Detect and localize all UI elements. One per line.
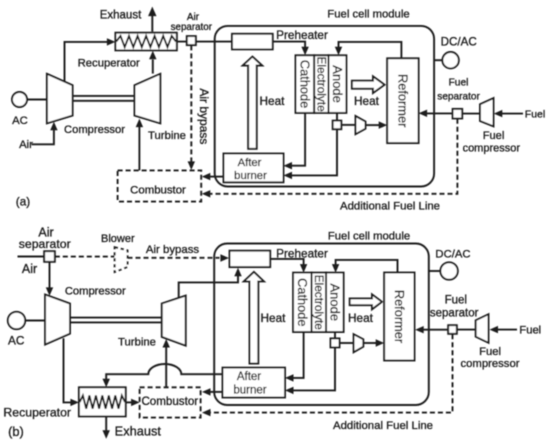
wire reformer to anode (a) (339, 42, 402, 58)
junction square anode outlet (a) (333, 121, 342, 130)
wire cathode to after burner (a) (292, 113, 306, 166)
svg-text:DC/AC: DC/AC (435, 249, 470, 261)
svg-text:Fuel: Fuel (519, 325, 541, 337)
svg-text:Electrolyte: Electrolyte (314, 57, 328, 113)
ejector nozzle (b) (354, 334, 364, 352)
svg-text:separator: separator (437, 92, 480, 103)
fuel cell module boundary (b) (214, 244, 429, 406)
svg-text:After: After (237, 371, 261, 383)
svg-text:separator: separator (430, 308, 479, 320)
wire fuel compressor to fuel separator (b) (457, 329, 476, 331)
svg-text:Compressor: Compressor (64, 124, 125, 136)
recuperator R1 (a) (115, 33, 176, 51)
wire air inlet (b) (18, 256, 45, 258)
cathode (b) (293, 273, 312, 332)
wire anode to junction square (a) (336, 113, 338, 121)
svg-text:Heat: Heat (348, 311, 374, 325)
svg-text:separator: separator (171, 22, 213, 33)
fuel compressor (a) (480, 98, 494, 126)
wire reformer to anode (b) (336, 260, 398, 273)
anode (b) (326, 273, 344, 332)
svg-text:Heat: Heat (260, 94, 286, 108)
wire ejector to reformer (a) (366, 124, 380, 126)
svg-text:Turbine: Turbine (148, 130, 186, 142)
shaft (b) (70, 317, 162, 319)
svg-text:Recuperator: Recuperator (3, 406, 71, 420)
svg-text:(a): (a) (16, 195, 30, 209)
air separator square (a) (187, 36, 196, 45)
DC/AC converter circle (b) (440, 262, 457, 279)
svg-text:Air bypass: Air bypass (197, 88, 211, 144)
svg-text:Recuperator: Recuperator (78, 57, 140, 69)
additional fuel dashed line (a) (210, 119, 457, 194)
wire recuperator to combustor (b) (126, 401, 132, 403)
compressor (b) (45, 295, 70, 345)
svg-text:burner: burner (233, 385, 266, 397)
wire combustor to turbine (a) (138, 127, 140, 171)
electrolyte (a) (314, 55, 328, 113)
wire compressor to recuperator (b) (64, 338, 71, 402)
wire junction to after burner (b) (293, 347, 335, 390)
cathode (a) (296, 55, 315, 113)
ejector nozzle (a) (356, 116, 366, 134)
svg-text:Anode: Anode (330, 65, 345, 103)
svg-text:AC: AC (8, 333, 25, 347)
wire air separator to compressor (b) (49, 262, 51, 289)
svg-text:Heat: Heat (261, 311, 287, 325)
svg-text:Reformer: Reformer (392, 290, 407, 344)
svg-text:Fuel: Fuel (479, 346, 501, 358)
after burner (a) (224, 154, 284, 183)
shaft (a) (73, 95, 135, 97)
wire air inlet (a) (32, 130, 54, 145)
svg-text:compressor: compressor (460, 358, 519, 370)
wire combustor to turbine (b) (165, 348, 167, 388)
additional fuel dashed line (b) (210, 334, 452, 412)
heat block arrow right (b) (350, 294, 382, 309)
DC/AC converter circle (a) (442, 52, 458, 68)
wire turbine to recuperator (a) (152, 60, 154, 74)
heat block arrow up (a) (243, 57, 263, 149)
blower (b) (115, 247, 128, 272)
svg-text:Fuel: Fuel (483, 130, 505, 142)
recuperator (b) (79, 387, 126, 416)
svg-text:Exhaust: Exhaust (115, 424, 162, 439)
wire preheater to cathode (b) (270, 259, 303, 266)
wire junction to after burner (a) (292, 129, 338, 175)
air bypass dashed line (b) (128, 257, 220, 259)
wire fuel separator to reformer (b) (424, 329, 449, 331)
wire after burner to combustor (a) (210, 176, 224, 178)
svg-text:Fuel: Fuel (449, 77, 469, 88)
wire module to DC/AC converter (a) (434, 59, 442, 61)
svg-text:Compressor: Compressor (65, 286, 126, 298)
fuel cell module boundary (a) (215, 26, 434, 187)
wire after burner to recuperator with hop (b) (106, 364, 222, 380)
wire ejector to reformer (b) (363, 342, 376, 344)
svg-text:DC/AC: DC/AC (441, 36, 477, 49)
svg-text:Turbine: Turbine (118, 336, 156, 348)
svg-text:Heat: Heat (354, 94, 380, 108)
reformer (a) (387, 58, 418, 143)
wire fuel separator to reformer (a) (427, 112, 453, 114)
wire compressor outlet to recuperator (a) (65, 42, 109, 82)
combustor dashed box (a) (118, 170, 202, 201)
wire fuel inlet (a) (502, 113, 524, 115)
combustor dashed box (b) (140, 387, 201, 417)
wire turbine to preheater (b) (179, 276, 238, 298)
wire cathode to after burner (b) (293, 332, 304, 378)
exhaust arrow (a) (151, 16, 153, 32)
svg-text:Exhaust: Exhaust (100, 10, 142, 22)
heat block arrow right (a) (352, 76, 385, 93)
wire after burner to combustor (b) (210, 391, 223, 393)
after burner (b) (223, 368, 286, 398)
junction square anode outlet (b) (331, 338, 340, 347)
preheater (a) (232, 34, 273, 50)
heat block arrow up (b) (244, 272, 264, 364)
AC generator circle (a) (12, 92, 27, 107)
svg-text:Anode: Anode (327, 284, 342, 322)
AC generator circle (b) (8, 312, 25, 329)
fuel separator square (b) (448, 325, 457, 334)
fuel compressor (b) (476, 314, 489, 343)
turbine (a) (135, 74, 161, 124)
wire AC to compressor (a) (27, 99, 47, 101)
wire fuel compressor to fuel separator (a) (462, 113, 480, 115)
preheater (b) (230, 251, 271, 267)
svg-text:Air: Air (19, 139, 33, 151)
svg-text:Cathode: Cathode (297, 60, 312, 108)
svg-text:Combustor: Combustor (130, 184, 186, 196)
recuperator zigzag (a) (116, 36, 176, 47)
svg-text:Combustor: Combustor (141, 395, 198, 408)
wire fuel inlet (b) (497, 329, 517, 331)
svg-text:burner: burner (234, 170, 267, 182)
electrolyte (b) (312, 273, 327, 332)
svg-text:(b): (b) (8, 424, 24, 439)
svg-text:Electrolyte: Electrolyte (312, 275, 326, 331)
recuperator zigzag (b) (80, 396, 125, 409)
svg-text:Additional Fuel Line: Additional Fuel Line (340, 201, 440, 213)
wire recuperator to air separator to preheater (a) (177, 41, 232, 43)
air separator square (b) (44, 251, 55, 262)
wire preheater to cathode (a) (273, 42, 305, 48)
svg-text:AC: AC (12, 115, 28, 127)
blower dashed line left (b) (55, 256, 115, 258)
svg-text:Additional Fuel Line: Additional Fuel Line (333, 420, 433, 432)
svg-text:Air: Air (22, 262, 37, 276)
svg-text:Fuel cell module: Fuel cell module (328, 230, 410, 242)
wire anode to junction square (b) (334, 332, 336, 338)
wire module to DC/AC converter (b) (429, 270, 441, 272)
compressor (a) (47, 74, 73, 124)
fuel separator square (a) (453, 109, 463, 119)
turbine (b) (162, 296, 186, 346)
wire junction to ejector (b) (340, 342, 354, 344)
svg-text:separator: separator (19, 237, 71, 251)
svg-text:Preheater: Preheater (276, 28, 328, 42)
svg-text:Blower: Blower (101, 233, 135, 245)
svg-text:Reformer: Reformer (395, 74, 410, 128)
svg-text:Fuel cell module: Fuel cell module (327, 8, 409, 20)
svg-text:compressor: compressor (463, 143, 521, 155)
svg-text:Air bypass: Air bypass (146, 244, 199, 256)
svg-text:Cathode: Cathode (295, 278, 310, 326)
svg-text:Fuel: Fuel (525, 108, 545, 120)
svg-text:Fuel: Fuel (445, 295, 467, 307)
wire recuperator to exhaust (b) (105, 416, 107, 431)
wire AC to compressor (b) (25, 320, 45, 322)
air bypass dashed line (a) (190, 45, 192, 161)
wire junction to ejector (a) (341, 124, 355, 126)
reformer (b) (384, 273, 414, 361)
svg-text:After: After (238, 157, 262, 169)
anode (a) (329, 55, 347, 113)
